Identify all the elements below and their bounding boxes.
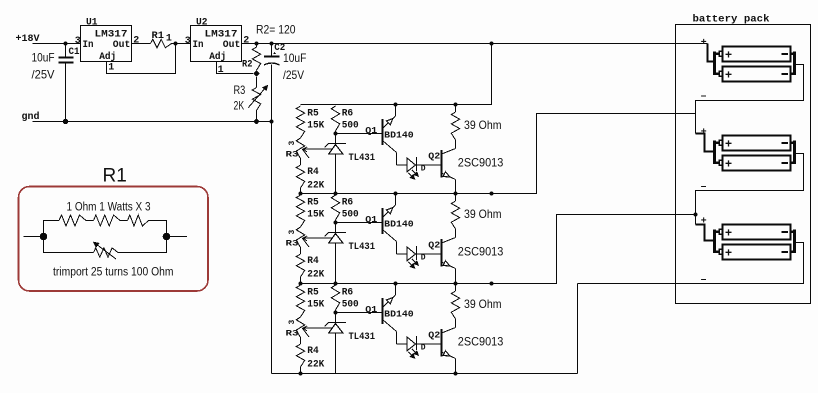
wire base channel 2 — [336, 222, 383, 224]
resistor R4 channel 2 — [296, 248, 304, 284]
trimmer VR channel 2 — [296, 227, 331, 248]
svg-text:R5: R5 — [307, 197, 319, 208]
wire R1 to U2 — [172, 43, 191, 45]
resistor 39 Ohm channel 3 — [451, 284, 459, 320]
svg-text:R4: R4 — [307, 167, 319, 178]
svg-text:1: 1 — [108, 63, 114, 74]
node gnd C2 — [270, 120, 274, 124]
svg-text:Adj: Adj — [209, 51, 226, 63]
svg-text:TL431: TL431 — [349, 332, 376, 343]
svg-text:15K: 15K — [307, 121, 324, 132]
svg-text:trimport 25 turns 100 Ohm: trimport 25 turns 100 Ohm — [53, 267, 174, 279]
svg-text:1: 1 — [218, 65, 224, 76]
LED D channel 1 — [397, 157, 442, 179]
node gnd C1 — [63, 119, 69, 125]
wire channel 2 top rail — [301, 114, 696, 194]
LED D channel 3 — [397, 336, 442, 358]
node input junction — [64, 42, 68, 46]
svg-text:R6: R6 — [342, 108, 354, 119]
resistor R5 channel 1 — [296, 106, 304, 138]
svg-text:battery pack: battery pack — [693, 14, 770, 26]
node emitter Q1 next channel 1 — [394, 192, 398, 196]
svg-text:15K: 15K — [307, 210, 324, 221]
node adj diamond junction — [253, 70, 260, 77]
wire U2 adj pin — [217, 62, 254, 74]
svg-text:Q1: Q1 — [365, 305, 378, 315]
legend red box — [19, 187, 209, 292]
node legend left — [40, 233, 48, 241]
capacitor C1 — [59, 44, 74, 122]
svg-text:+: + — [725, 156, 732, 170]
svg-text:22K: 22K — [307, 181, 324, 192]
svg-text:–: – — [701, 91, 707, 102]
wire gnd rail — [33, 121, 272, 123]
node tap2 junction — [694, 213, 698, 217]
svg-text:In: In — [193, 40, 204, 51]
svg-text:R2= 120: R2= 120 — [256, 23, 296, 37]
resistor R4 channel 1 — [296, 159, 304, 194]
shunt regulator TL431 channel 2 — [325, 223, 346, 284]
LED D channel 2 — [397, 246, 442, 268]
op-amp U2 LM317 regulator box — [191, 26, 242, 63]
svg-text:U1: U1 — [86, 18, 98, 29]
shunt regulator TL431 channel 3 — [325, 313, 346, 374]
node Q1 emitter rail channel 3 — [394, 282, 398, 286]
svg-text:3: 3 — [288, 320, 297, 325]
node 39 Ohm rail channel 1 — [454, 103, 458, 107]
svg-text:TL431: TL431 — [349, 153, 376, 164]
svg-text:D: D — [421, 344, 426, 353]
battery group 2 cells — [723, 136, 791, 151]
node channel feed junction — [490, 42, 494, 46]
node R4 bottom channel 2 — [299, 282, 303, 286]
wire legend left stub — [24, 236, 44, 238]
svg-text:15K: 15K — [307, 300, 324, 311]
wire gnd down to bottom rail — [271, 122, 273, 374]
resistor R4 channel 3 — [296, 338, 304, 374]
node Q2 emitter channel 2 — [454, 282, 458, 286]
svg-text:22K: 22K — [307, 360, 324, 371]
node R6 base junction channel 2 — [334, 221, 338, 225]
wire battery group 3 plus feed — [696, 225, 714, 241]
node C2 top — [270, 42, 274, 46]
wire U1 adj pin — [107, 44, 176, 74]
trimmer VR channel 3 — [296, 317, 331, 338]
svg-text:+18V: +18V — [16, 34, 40, 45]
trimmer VR channel 1 — [296, 138, 331, 159]
svg-text:R5: R5 — [307, 108, 319, 119]
svg-text:R3: R3 — [286, 151, 299, 160]
node 39 Ohm rail channel 3 — [454, 282, 458, 286]
transistor Q2 2SC9013 channel 1 — [442, 141, 456, 194]
svg-text:R2: R2 — [242, 59, 253, 70]
svg-text:In: In — [83, 40, 94, 51]
wire channel 3 top rail — [301, 215, 696, 284]
svg-text:Q2: Q2 — [428, 241, 440, 251]
svg-text:BD140: BD140 — [384, 310, 414, 320]
svg-text:+: + — [725, 225, 732, 239]
wire battery group 3 minus — [578, 243, 804, 284]
svg-text:2: 2 — [133, 35, 139, 46]
svg-text:2SC9013: 2SC9013 — [458, 156, 504, 170]
svg-text:+: + — [701, 127, 707, 138]
svg-text:R3: R3 — [286, 240, 299, 249]
node legend right — [163, 233, 171, 241]
battery group 3 cells — [723, 225, 791, 240]
transistor Q2 2SC9013 channel 3 — [442, 320, 456, 374]
op-amp U1 LM317 regulator box — [81, 26, 132, 63]
svg-text:D: D — [421, 165, 426, 174]
svg-text:3: 3 — [185, 36, 191, 47]
resistor R1 — [151, 39, 172, 47]
svg-text:2K: 2K — [234, 98, 245, 112]
svg-text:Q2: Q2 — [428, 331, 440, 341]
resistor R5 channel 2 — [296, 195, 304, 227]
svg-text:–: – — [701, 274, 707, 285]
resistor 39 Ohm channel 1 — [451, 105, 459, 141]
svg-text:R4: R4 — [307, 256, 319, 267]
resistor 39 Ohm channel 2 — [451, 194, 459, 230]
svg-text:1 Ohm 1 Watts X 3: 1 Ohm 1 Watts X 3 — [67, 202, 151, 214]
resistor R5 channel 3 — [296, 285, 304, 317]
svg-text:R3: R3 — [234, 83, 246, 97]
node emitter Q1 next channel 2 — [394, 282, 398, 286]
node R6 base junction channel 3 — [334, 311, 338, 315]
svg-text:+: + — [725, 67, 732, 81]
svg-text:+: + — [725, 47, 732, 61]
svg-text:3: 3 — [288, 141, 297, 146]
wire +18V input rail — [33, 43, 81, 45]
transistor Q1 BD140 channel 3 — [383, 284, 397, 345]
wire battery group 2 plus feed — [696, 134, 714, 152]
svg-text:+: + — [701, 216, 707, 227]
svg-text:22K: 22K — [307, 270, 324, 281]
battery group 1 cells — [723, 47, 791, 62]
svg-text:Out: Out — [223, 40, 241, 51]
svg-text:/25V: /25V — [283, 68, 304, 82]
svg-text:10uF: 10uF — [32, 51, 55, 65]
resistor R2 — [252, 47, 260, 70]
svg-text:BD140: BD140 — [384, 220, 414, 230]
svg-text:+: + — [725, 136, 732, 150]
svg-text:TL431: TL431 — [349, 242, 376, 253]
svg-text:500: 500 — [342, 300, 359, 311]
node Q2 emitter channel 3 — [454, 372, 458, 376]
shunt regulator TL431 channel 1 — [325, 134, 346, 194]
wire battery group 1 plus feed — [708, 44, 714, 62]
svg-text:U2: U2 — [196, 18, 208, 29]
svg-text:R1: R1 — [103, 166, 127, 187]
wire battery minus return — [577, 284, 579, 374]
node 39 Ohm rail channel 2 — [454, 192, 458, 196]
svg-text:2SC9013: 2SC9013 — [458, 245, 504, 259]
svg-text:gnd: gnd — [22, 111, 40, 123]
wire battery group 2 minus — [696, 154, 804, 225]
node TL431 anode channel 2 — [334, 282, 338, 286]
resistor R6 channel 3 — [331, 285, 339, 313]
node R4 bottom channel 1 — [299, 192, 303, 196]
node R6 base junction channel 1 — [334, 132, 338, 136]
svg-text:2: 2 — [243, 35, 249, 46]
svg-text:Q1: Q1 — [365, 215, 378, 225]
svg-text:3: 3 — [75, 36, 81, 47]
svg-text:39 Ohm: 39 Ohm — [464, 297, 502, 311]
svg-text:R5: R5 — [307, 287, 319, 298]
svg-text:3: 3 — [288, 230, 297, 235]
legend series resistors — [44, 215, 167, 237]
node TL431 anode channel 1 — [334, 192, 338, 196]
transistor Q2 2SC9013 channel 2 — [442, 230, 456, 284]
svg-text:Q1: Q1 — [365, 126, 378, 136]
label trimmer channel 2 — [286, 230, 299, 249]
svg-text:39 Ohm: 39 Ohm — [464, 207, 502, 221]
wire U1 out — [132, 43, 151, 45]
svg-text:500: 500 — [342, 121, 359, 132]
node Q2 emitter channel 1 — [454, 192, 458, 196]
wire legend right stub — [167, 236, 188, 238]
svg-text:Q2: Q2 — [428, 152, 440, 162]
svg-text:D: D — [421, 254, 426, 263]
svg-text:10uF: 10uF — [283, 51, 306, 65]
label trimmer channel 1 — [286, 141, 299, 160]
wire base channel 3 — [336, 312, 383, 314]
battery pack box — [676, 25, 811, 304]
label trimmer channel 3 — [286, 320, 299, 339]
node Q1 emitter rail channel 1 — [394, 103, 398, 107]
capacitor C2 — [264, 44, 280, 122]
wire battery group 1 minus — [696, 65, 804, 134]
transistor Q1 BD140 channel 2 — [383, 194, 397, 255]
resistor R6 channel 1 — [331, 106, 339, 134]
node spare junction channel 2 — [490, 282, 494, 286]
svg-text:500: 500 — [342, 210, 359, 221]
svg-text:39 Ohm: 39 Ohm — [464, 118, 502, 132]
wire U2 out to battery plus rail — [242, 43, 708, 45]
legend trimmer branch — [44, 237, 167, 260]
svg-text:/25V: /25V — [32, 67, 55, 81]
svg-text:R6: R6 — [342, 287, 354, 298]
node R1-U2-adj junction — [174, 42, 178, 46]
node gnd R3 — [254, 119, 259, 124]
node R4 bottom channel 3 — [299, 372, 303, 376]
svg-text:R1: R1 — [152, 31, 165, 42]
svg-text:Out: Out — [113, 40, 131, 51]
svg-text:Adj: Adj — [99, 51, 116, 63]
wire bottom ground rail — [272, 373, 578, 375]
svg-text:–: – — [701, 181, 707, 192]
svg-text:+: + — [701, 37, 707, 48]
resistor R6 channel 2 — [331, 195, 339, 223]
node Q1 emitter rail channel 2 — [394, 192, 398, 196]
potentiometer R3 — [248, 77, 267, 122]
wire base channel 1 — [336, 133, 383, 135]
node R2 top — [255, 42, 259, 46]
svg-text:2SC9013: 2SC9013 — [458, 335, 504, 349]
svg-text:+: + — [725, 245, 732, 259]
svg-text:R3: R3 — [286, 330, 299, 339]
svg-text:R4: R4 — [307, 346, 319, 357]
svg-text:C1: C1 — [69, 47, 80, 58]
svg-text:BD140: BD140 — [384, 131, 414, 141]
transistor Q1 BD140 channel 1 — [383, 105, 397, 166]
svg-text:R6: R6 — [342, 197, 354, 208]
svg-text:1: 1 — [166, 34, 172, 45]
node spare junction channel 1 — [490, 192, 494, 196]
wire channel 1 top rail — [301, 44, 492, 105]
